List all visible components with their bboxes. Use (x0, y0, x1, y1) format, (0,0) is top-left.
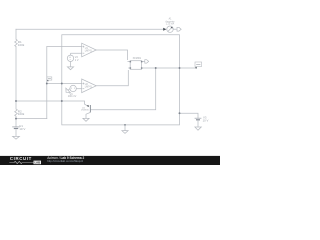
svg-text:CIRCUIT: CIRCUIT (10, 156, 32, 161)
voltage source V2 labels (75, 56, 79, 62)
wire node A: y=118.6 from left rail to x=46.8 (16, 118, 47, 120)
ground under battery right (195, 121, 201, 131)
op-amp U1 (82, 43, 97, 57)
wire op-amp U1 top input from corner (47, 46, 82, 48)
net flag on x=46.8 wire (47, 77, 52, 82)
voltage source V3 (op-amp U2 + input) (70, 85, 82, 91)
svg-text:2N3906: 2N3906 (81, 110, 89, 112)
footer bar (0, 156, 220, 165)
wire branch to battery V3 (180, 113, 199, 118)
op-amp U2 (82, 79, 97, 93)
output flag after ammeter (177, 27, 181, 31)
svg-text:http://circuitlab.com/c/9kcqv2: http://circuitlab.com/c/9kcqv2 (47, 159, 83, 163)
svg-text:1.23 mA: 1.23 mA (166, 23, 175, 26)
junction dot node (125,124.9) (124, 124, 126, 126)
junction dot node (46.8,83.5) (46, 83, 48, 85)
footer text (47, 156, 84, 163)
svg-text:XFMR1: XFMR1 (133, 57, 142, 60)
wire top rail from left corner to ammeter (16, 28, 163, 30)
op-amp U2 labels (85, 84, 93, 88)
svg-text:LM741: LM741 (85, 86, 93, 88)
junction dot node (16,101) (15, 100, 17, 102)
net flag banner right (195, 62, 202, 69)
wire outer loop rectangle (62, 35, 180, 125)
ground beside V3 (rotated 45) (64, 86, 72, 94)
output flag after box (145, 60, 149, 63)
ammeter arrow tip (171, 27, 173, 29)
svg-text:10 V: 10 V (203, 119, 209, 123)
wire box lower-right rail y=68 (142, 67, 197, 69)
junction dot node (179.5,113.2) (179, 112, 181, 114)
wire base rail y=101 to transistor emitter (16, 101, 85, 104)
wire x=155.7 down and left to transistor base (90, 68, 155, 110)
svg-text:1 V: 1 V (75, 59, 79, 62)
logo CIRCUITLAB (9, 156, 41, 164)
svg-text:A1: A1 (169, 17, 173, 20)
junction dot node (16,118.6) (15, 118, 17, 120)
resistor R2 labels (18, 110, 25, 117)
voltage source V3 labels (68, 93, 77, 98)
junction dot node (61.8,83.5) (61, 83, 63, 85)
svg-text:100 mV: 100 mV (68, 95, 77, 98)
wire x=46.8 vertical (reference net) (46, 47, 48, 119)
svg-text:100k: 100k (18, 43, 25, 47)
resistor R1 labels (18, 40, 25, 47)
svg-text:100k: 100k (18, 112, 25, 116)
wire op-amp U1 output to box (96, 50, 127, 60)
wire left vertical rail (15, 29, 17, 127)
junction dot node (61.8,101) (61, 100, 63, 102)
ammeter AM1 (167, 26, 177, 32)
ground under V2 (67, 67, 73, 70)
voltage source V2 (op-amp U1 + input) (67, 53, 81, 67)
junction dot node (155.7,68) (155, 67, 157, 69)
svg-text:LM741: LM741 (85, 51, 93, 53)
resistor R1 (15, 39, 18, 47)
transistor Q1 (PNP, base right) (85, 104, 91, 118)
ground under Q1 (83, 118, 89, 121)
ground center bottom (122, 125, 128, 133)
transistor Q1 labels (81, 107, 89, 111)
ground under V1 (13, 129, 20, 139)
battery V3 right (195, 118, 202, 120)
op-amp U1 labels (85, 48, 93, 52)
resistor R2 (15, 109, 18, 116)
ammeter labels (165, 17, 174, 25)
battery V1 labels (19, 124, 25, 131)
junction dot node (179.5,68) (179, 67, 181, 69)
svg-text:10 V: 10 V (19, 127, 25, 131)
battery V3 labels (203, 116, 209, 123)
arrowhead into ammeter (163, 28, 166, 31)
battery V1 (12, 127, 20, 129)
wire op-amp U2 top input (47, 83, 82, 85)
svg-text:LAB: LAB (35, 161, 41, 165)
wire op-amp U2 output to box (96, 70, 129, 85)
box component T1 (128, 61, 145, 70)
